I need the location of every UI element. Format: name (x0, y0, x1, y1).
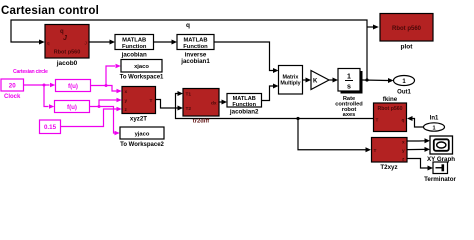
svg-text:tr2diff: tr2diff (193, 119, 209, 125)
block To Workspace2 yjaco (120, 127, 165, 148)
wire Clock to f(u) blocks (24, 83, 56, 109)
wire xyz2T T to tr2diff T2 (156, 100, 184, 111)
svg-text:plot: plot (401, 44, 414, 51)
wire jacobian2 to Matrix Multiply input 2 (262, 84, 279, 101)
block jacob0 (45, 25, 89, 68)
block MATLAB Function jacobian2 (227, 94, 262, 116)
svg-text:T2: T2 (186, 106, 192, 112)
wire f(u)y to xyz2T y and yjaco (90, 98, 122, 136)
wire 0.15 to xyz2T z (61, 107, 122, 127)
svg-text:MATLAB: MATLAB (122, 38, 146, 44)
svg-text:T: T (376, 118, 379, 124)
wire f(u)x to xjaco and xyz2T x (91, 64, 122, 94)
gain K (311, 71, 329, 90)
svg-text:jacobian1: jacobian1 (180, 58, 210, 65)
svg-text:f(u): f(u) (68, 83, 78, 90)
svg-text:To Workspace2: To Workspace2 (120, 142, 164, 148)
svg-text:To Workspace1: To Workspace1 (120, 75, 164, 81)
block Clock (20) (1, 79, 24, 100)
wire In1 to fkine q (right side input) (407, 116, 425, 127)
svg-text:jacobian2: jacobian2 (229, 109, 259, 116)
block To Workspace1 xjaco (120, 60, 164, 81)
svg-text:s: s (347, 84, 351, 91)
svg-text:1: 1 (432, 126, 435, 132)
svg-text:Rbot p560: Rbot p560 (377, 106, 402, 112)
wire tr2diff to jacobian2 (219, 100, 227, 105)
wire gain to integrator (329, 78, 338, 83)
wire fkine branch to T2xyz (298, 119, 371, 153)
svg-text:Rbot p560: Rbot p560 (54, 50, 81, 56)
svg-text:y: y (402, 149, 405, 154)
svg-text:x: x (402, 141, 405, 146)
wire Matrix Multiply to gain K (303, 78, 312, 83)
wire inverse jacobian1 to Matrix Multiply input 1 (214, 42, 279, 73)
block T2xyz (372, 138, 408, 172)
svg-text:yjaco: yjaco (135, 131, 150, 137)
svg-text:In1: In1 (430, 116, 439, 122)
block xyz2T (122, 87, 156, 123)
svg-text:jacob0: jacob0 (56, 60, 78, 67)
svg-text:q: q (186, 22, 190, 29)
svg-text:Terminator: Terminator (424, 176, 456, 183)
svg-text:T: T (374, 148, 377, 154)
port Out1 (394, 76, 415, 96)
block MATLAB Function inverse jacobian1 (177, 35, 214, 66)
block Constant 0.15 (40, 120, 61, 134)
wire T2xyz x to XY Graph 1 (407, 138, 430, 143)
svg-text:Function: Function (232, 102, 256, 108)
svg-text:Cartesian circle: Cartesian circle (13, 69, 48, 75)
wire jacob0 to jacobian (89, 40, 115, 45)
svg-text:f(u): f(u) (67, 104, 77, 111)
svg-text:xyz2T: xyz2T (130, 116, 147, 123)
wire integrator to Out1 (363, 78, 394, 83)
block integrator 1/s Rate controlled robot axes (335, 69, 363, 119)
svg-text:1: 1 (347, 74, 351, 81)
wire q feedback (integrator output to jacob0 input, top loop) (11, 20, 369, 82)
svg-text:q: q (402, 119, 405, 124)
svg-text:Function: Function (183, 44, 208, 50)
wire q tap to plot block (367, 25, 379, 30)
svg-text:MATLAB: MATLAB (183, 38, 207, 44)
svg-text:Rbot p560: Rbot p560 (392, 26, 422, 32)
block tr2diff (183, 89, 219, 125)
svg-text:Cartesian control: Cartesian control (1, 5, 99, 17)
svg-text:K: K (313, 79, 318, 85)
svg-text:jacobian: jacobian (121, 52, 147, 59)
svg-text:fkine: fkine (383, 96, 398, 103)
svg-text:20: 20 (9, 83, 16, 90)
wire fkine T to tr2diff T1 (long return) (176, 91, 374, 120)
port In1 (424, 116, 445, 132)
wire T2xyz y to XY Graph 2 (407, 147, 430, 152)
svg-text:y: y (125, 99, 128, 104)
svg-text:Multiply: Multiply (280, 81, 300, 87)
svg-text:x: x (125, 90, 128, 95)
block Fcn f(u) y (55, 101, 90, 113)
svg-text:Out1: Out1 (397, 90, 411, 96)
svg-text:J: J (85, 41, 87, 46)
svg-text:T1: T1 (186, 92, 192, 98)
block Terminator (424, 162, 456, 183)
block XY Graph (427, 136, 455, 163)
block plot (380, 14, 433, 51)
wire jacobian to inverse jacobian1 (154, 40, 178, 45)
svg-text:T: T (150, 98, 153, 104)
svg-text:Clock: Clock (4, 94, 21, 100)
svg-text:Function: Function (122, 44, 147, 50)
block MATLAB Function jacobian (115, 35, 154, 59)
block fkine (374, 103, 407, 132)
svg-text:0.15: 0.15 (44, 124, 57, 131)
block Matrix Multiply (279, 66, 303, 95)
wire T2xyz z to Terminator (407, 159, 433, 171)
svg-text:xjaco: xjaco (134, 64, 149, 70)
svg-text:T2xyz: T2xyz (380, 164, 397, 171)
svg-text:axes: axes (343, 112, 356, 118)
svg-text:dx: dx (211, 101, 217, 107)
block Fcn f(u) x (56, 80, 91, 92)
